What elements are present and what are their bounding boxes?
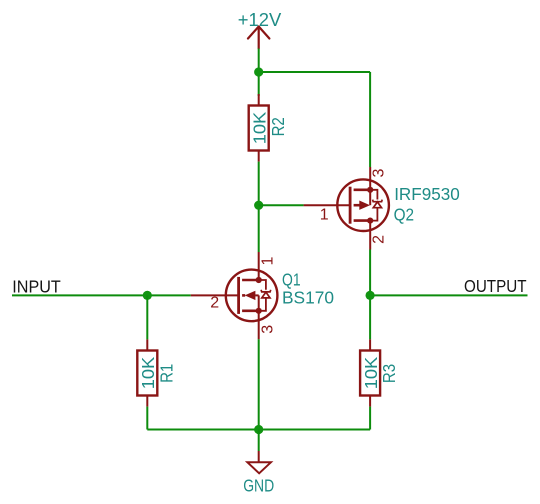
svg-text:R1: R1	[157, 364, 177, 383]
wire top rail horizontal	[259, 71, 370, 73]
svg-text:OUTPUT: OUTPUT	[464, 276, 527, 296]
transistor Q1	[191, 252, 278, 339]
wire R2 bottom to Q1 drain	[258, 162, 260, 252]
svg-text:10K: 10K	[138, 356, 158, 389]
resistor R1	[137, 339, 157, 406]
wire output junction to OUTPUT	[370, 294, 527, 296]
svg-text:INPUT: INPUT	[12, 277, 61, 297]
wire Q1 source down to ground rail	[258, 339, 260, 429]
power symbol +12V	[248, 27, 269, 49]
svg-text:R2: R2	[268, 117, 288, 136]
svg-text:GND: GND	[243, 475, 274, 495]
wire input node down to R1	[146, 295, 148, 339]
wire gate node to Q2 gate	[259, 204, 304, 206]
svg-text:2: 2	[370, 235, 387, 244]
junction ground rail	[254, 425, 263, 434]
junction input node	[143, 291, 152, 300]
wire right column down to Q2 source	[369, 72, 371, 167]
junction gate node	[254, 201, 263, 210]
wire INPUT to Q1 gate	[12, 294, 191, 296]
svg-text:3: 3	[259, 325, 276, 334]
junction output node	[366, 291, 375, 300]
svg-text:IRF9530: IRF9530	[394, 184, 460, 204]
resistor R2	[249, 94, 269, 162]
svg-text:BS170: BS170	[282, 287, 334, 307]
wire ground rail horizontal	[147, 429, 370, 431]
svg-text:Q2: Q2	[394, 205, 415, 225]
ground symbol GND	[247, 451, 271, 473]
svg-text:3: 3	[370, 168, 387, 177]
svg-text:1: 1	[320, 207, 329, 224]
wire Q2 drain to output junction	[369, 250, 371, 340]
wire ground stub	[258, 430, 260, 452]
wire +12V stem to top junction	[258, 49, 260, 97]
wire R1 bottom to ground rail	[146, 407, 148, 430]
svg-text:2: 2	[210, 294, 219, 311]
resistor R3	[360, 339, 380, 406]
junction top rail	[254, 67, 263, 76]
svg-text:1: 1	[259, 256, 276, 265]
svg-text:10K: 10K	[250, 111, 270, 144]
transistor Q2	[304, 167, 389, 250]
svg-text:+12V: +12V	[238, 9, 282, 30]
svg-text:R3: R3	[379, 364, 399, 383]
wire R3 bottom to ground rail	[369, 407, 371, 430]
